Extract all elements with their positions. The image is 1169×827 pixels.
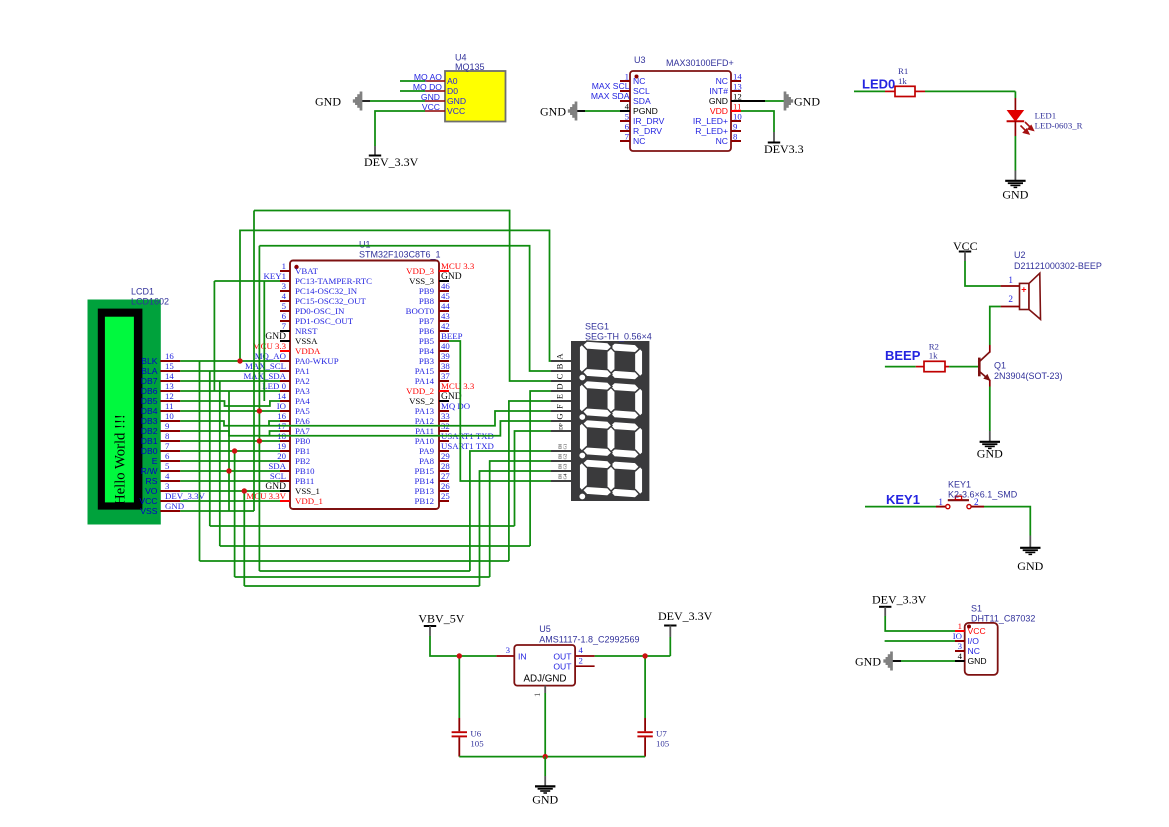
svg-text:KEY1: KEY1 xyxy=(264,271,286,281)
svg-text:E: E xyxy=(555,394,565,399)
svg-text:PB14: PB14 xyxy=(414,476,434,486)
LCD1 screen xyxy=(105,317,134,503)
svg-text:PA14: PA14 xyxy=(415,376,435,386)
svg-text:DB7: DB7 xyxy=(141,376,158,386)
wire SEG E drop xyxy=(509,401,551,561)
wire PA7 tail xyxy=(270,431,281,436)
svg-text:MCU 3.3V: MCU 3.3V xyxy=(246,491,286,501)
svg-text:4: 4 xyxy=(958,651,963,661)
svg-text:U1: U1 xyxy=(359,240,371,250)
svg-text:9: 9 xyxy=(165,421,170,431)
svg-text:GND: GND xyxy=(855,655,881,669)
svg-text:SCL: SCL xyxy=(633,86,650,96)
U5 pin numbers xyxy=(506,645,584,697)
U1 right pin names xyxy=(406,266,435,506)
svg-text:IR_LED+: IR_LED+ xyxy=(693,116,728,126)
svg-text:PB0: PB0 xyxy=(295,436,311,446)
svg-text:G2: G2 xyxy=(563,453,568,459)
svg-text:40: 40 xyxy=(441,341,450,351)
svg-text:PB12: PB12 xyxy=(414,496,434,506)
svg-text:3: 3 xyxy=(165,481,170,491)
net label MAX SCL xyxy=(592,81,630,91)
wire MQ AO xyxy=(400,80,425,82)
svg-text:IR_DRV: IR_DRV xyxy=(633,116,665,126)
svg-text:105: 105 xyxy=(656,739,670,749)
svg-text:4: 4 xyxy=(625,102,630,112)
junction (234.6,451) xyxy=(232,448,237,453)
svg-text:10: 10 xyxy=(165,411,174,421)
svg-text:46: 46 xyxy=(441,281,450,291)
svg-text:3: 3 xyxy=(506,645,511,655)
svg-text:45: 45 xyxy=(441,291,450,301)
resistor R1 xyxy=(895,86,915,96)
diode LED1 xyxy=(1007,111,1025,122)
svg-text:PGND: PGND xyxy=(633,106,658,116)
U3 left pin names xyxy=(633,76,665,146)
junction (259.4,411) xyxy=(257,408,262,413)
ground flag (U4 GND) xyxy=(315,92,361,111)
capacitor U7 xyxy=(637,732,652,736)
wire row DB2 to SEG G xyxy=(180,421,551,436)
R1 value 1k xyxy=(898,76,907,86)
svg-text:1: 1 xyxy=(625,72,629,82)
svg-text:PC14-OSC32_IN: PC14-OSC32_IN xyxy=(295,286,358,296)
LCD1 pin names xyxy=(139,356,158,516)
wire LED0 to R1 xyxy=(854,90,895,92)
svg-text:U2: U2 xyxy=(1014,250,1026,260)
svg-text:E: E xyxy=(152,456,158,466)
junction (240,361) xyxy=(237,358,242,363)
wire row DB4/IO xyxy=(180,410,280,412)
svg-text:PD0-OSC_IN: PD0-OSC_IN xyxy=(295,306,345,316)
LCD1 reference designator xyxy=(131,287,154,297)
wire SEG DP drop xyxy=(515,431,552,526)
svg-text:8: 8 xyxy=(733,132,738,142)
svg-text:PA5: PA5 xyxy=(295,406,310,416)
svg-text:13: 13 xyxy=(733,82,742,92)
junction U5 output xyxy=(642,653,647,658)
svg-text:G3: G3 xyxy=(563,463,568,469)
power symbol DEV_3.3V (U4) xyxy=(364,146,419,169)
svg-text:SDA: SDA xyxy=(268,461,286,471)
svg-text:8: 8 xyxy=(165,431,170,441)
svg-text:GND: GND xyxy=(1002,188,1028,202)
svg-text:PA7: PA7 xyxy=(295,426,310,436)
U3 left pin numbers xyxy=(625,72,630,142)
svg-text:IO: IO xyxy=(277,401,286,411)
svg-text:PA2: PA2 xyxy=(295,376,310,386)
svg-text:BEEP: BEEP xyxy=(885,348,921,363)
LCD1 bezel xyxy=(98,309,143,510)
buzzer U2 body xyxy=(1020,273,1041,319)
svg-text:GND: GND xyxy=(709,96,728,106)
svg-text:R1: R1 xyxy=(898,66,908,76)
wire bottom bus y=526 xyxy=(210,525,515,527)
svg-text:R/W: R/W xyxy=(141,466,159,476)
wire vertical KEY1 drop xyxy=(213,281,215,391)
svg-text:SDA: SDA xyxy=(633,96,651,106)
svg-text:VCC: VCC xyxy=(447,106,465,116)
svg-text:DB1: DB1 xyxy=(141,436,158,446)
svg-text:33: 33 xyxy=(441,411,450,421)
svg-text:VCC: VCC xyxy=(139,496,157,506)
U5 pin names xyxy=(518,652,572,685)
svg-text:D21121000302-BEEP: D21121000302-BEEP xyxy=(1014,261,1102,271)
svg-text:PD1-OSC_OUT: PD1-OSC_OUT xyxy=(295,316,354,326)
regulator U5 AMS1117 body xyxy=(514,645,575,686)
U4 pin names xyxy=(447,76,466,116)
sensor U4 MQ135 body xyxy=(445,71,506,122)
svg-text:S1: S1 xyxy=(971,604,982,614)
svg-text:12: 12 xyxy=(733,92,742,102)
svg-text:14: 14 xyxy=(277,391,286,401)
wire vertical inner loop leg xyxy=(258,246,260,571)
svg-text:PB5: PB5 xyxy=(419,336,435,346)
svg-text:10: 10 xyxy=(733,112,742,122)
svg-text:C: C xyxy=(555,373,565,379)
svg-text:2: 2 xyxy=(1008,294,1013,304)
Q1 value 2N3904(SOT-23) xyxy=(994,371,1063,381)
svg-text:4: 4 xyxy=(282,291,287,301)
svg-text:NC: NC xyxy=(633,136,645,146)
ground (KEY1) xyxy=(1017,536,1043,574)
svg-text:D: D xyxy=(555,383,565,389)
svg-text:DHT11_C87032: DHT11_C87032 xyxy=(971,614,1035,624)
svg-text:GND: GND xyxy=(1017,559,1043,573)
svg-text:GND: GND xyxy=(315,95,341,109)
transistor Q1 2N3904 xyxy=(978,345,990,387)
U1 right pin stubs xyxy=(439,271,449,501)
wire row E/20 xyxy=(180,460,280,462)
svg-text:LED-0603_R: LED-0603_R xyxy=(1035,121,1083,131)
svg-text:DB0: DB0 xyxy=(141,446,158,456)
svg-text:PA1: PA1 xyxy=(295,366,310,376)
wire KEY1 to switch xyxy=(865,506,946,508)
svg-text:1: 1 xyxy=(1008,275,1013,285)
capacitor U7 wires xyxy=(644,656,646,757)
svg-text:MCU 3.3: MCU 3.3 xyxy=(253,341,287,351)
MCU U1 STM32F103C8T6 body xyxy=(290,261,439,510)
LED1 light arrows xyxy=(1021,122,1034,134)
wire U3 VDD to DEV3.3 xyxy=(741,111,774,132)
svg-text:PB2: PB2 xyxy=(295,456,310,466)
wire BEEP to R2 xyxy=(885,366,924,368)
wire vertical 19 to bus xyxy=(234,451,236,577)
svg-text:IO: IO xyxy=(953,631,962,641)
svg-text:GND: GND xyxy=(165,501,184,511)
svg-text:DB5: DB5 xyxy=(141,396,158,406)
wire row BLA/MAX_SCL xyxy=(180,370,280,372)
svg-text:1: 1 xyxy=(958,621,962,631)
U1 left net labels and pin numbers xyxy=(243,261,286,501)
U4 pin stubs xyxy=(425,81,445,111)
U1 pin1 dot xyxy=(294,265,298,269)
U5 ADJ pin and wire down xyxy=(544,686,546,757)
svg-text:PB11: PB11 xyxy=(295,476,314,486)
svg-text:6: 6 xyxy=(625,122,630,132)
svg-text:1: 1 xyxy=(532,693,542,697)
wire row DB1/18 xyxy=(180,440,280,442)
S1 pin numbers xyxy=(953,621,963,661)
net flag KEY1 xyxy=(886,492,920,507)
net label MAX SDA xyxy=(591,91,630,101)
net label GND (U4) xyxy=(421,92,440,102)
LED1 reference designator xyxy=(1035,111,1057,121)
wire U3 PGND to GND xyxy=(576,110,620,112)
S1 pin names xyxy=(968,626,987,666)
U5 reference designator xyxy=(539,624,551,634)
svg-text:VSS: VSS xyxy=(140,506,157,516)
ground flag (U3 PGND) xyxy=(540,102,576,121)
wire bottom bus y=571 xyxy=(259,570,470,572)
U6 reference designator xyxy=(470,729,481,739)
svg-text:VO: VO xyxy=(145,486,158,496)
svg-text:A: A xyxy=(555,353,565,360)
ground (U5) xyxy=(532,757,558,807)
svg-text:LED1: LED1 xyxy=(1035,111,1057,121)
svg-text:LED 0: LED 0 xyxy=(262,381,286,391)
power symbol DEV_3.3V (S1) xyxy=(872,593,927,617)
svg-text:DB6: DB6 xyxy=(141,386,158,396)
wire row DB6/LED 0 xyxy=(180,390,280,392)
svg-text:MQ135: MQ135 xyxy=(455,62,485,72)
svg-text:LCD1602: LCD1602 xyxy=(131,297,169,307)
svg-text:BOOT0: BOOT0 xyxy=(406,306,435,316)
wire SEG DIG1 drop xyxy=(470,451,551,571)
U2 reference designator xyxy=(1014,250,1026,260)
svg-text:42: 42 xyxy=(441,321,450,331)
svg-text:1k: 1k xyxy=(929,351,938,361)
svg-text:PA8: PA8 xyxy=(419,456,434,466)
KEY1 reference designator xyxy=(948,480,971,490)
svg-text:11: 11 xyxy=(165,401,173,411)
svg-text:GND: GND xyxy=(968,656,987,666)
wire U4 VCC to DEV_3.3V xyxy=(375,111,425,146)
svg-text:7: 7 xyxy=(282,321,287,331)
svg-text:GND: GND xyxy=(447,96,466,106)
wire bottom bus y=586 xyxy=(244,585,479,587)
svg-text:SEG1: SEG1 xyxy=(585,322,609,332)
svg-text:MCU 3.3: MCU 3.3 xyxy=(441,261,475,271)
svg-text:PB8: PB8 xyxy=(419,296,435,306)
U4 reference designator xyxy=(455,53,467,63)
wire vertical DB7 to bus xyxy=(219,381,221,546)
svg-text:3: 3 xyxy=(958,641,963,651)
LCD1 pin stubs xyxy=(160,361,180,511)
switch KEY1 K2-3.6x6.1_SMD xyxy=(946,496,971,509)
svg-text:MAX SCL: MAX SCL xyxy=(592,81,630,91)
wire U2 pin2 to Q1 collector xyxy=(990,307,1020,346)
wire bottom bus y=577 xyxy=(235,576,490,578)
svg-text:PB13: PB13 xyxy=(414,486,434,496)
KEY1 value K2-3.6x6.1_SMD xyxy=(948,490,1018,500)
svg-text:39: 39 xyxy=(441,351,450,361)
sensor S1 DHT11 body xyxy=(965,623,998,675)
svg-text:26: 26 xyxy=(441,481,450,491)
LED1 cathode pin and wire to GND xyxy=(1014,121,1016,171)
power symbol VBV_5V xyxy=(418,612,464,637)
svg-text:MAX30100EFD+: MAX30100EFD+ xyxy=(666,58,734,68)
svg-text:37: 37 xyxy=(441,371,450,381)
svg-text:1: 1 xyxy=(282,261,286,271)
svg-text:VDD_3: VDD_3 xyxy=(406,266,434,276)
svg-text:+: + xyxy=(1021,285,1026,295)
svg-text:5: 5 xyxy=(282,301,287,311)
svg-text:NRST: NRST xyxy=(295,326,318,336)
svg-text:1: 1 xyxy=(938,497,943,507)
svg-text:RS: RS xyxy=(146,476,158,486)
svg-text:DB4: DB4 xyxy=(141,406,158,416)
svg-text:U6: U6 xyxy=(470,729,481,739)
svg-text:U3: U3 xyxy=(634,55,646,65)
svg-text:LCD1: LCD1 xyxy=(131,287,154,297)
wire vertical GND bus drop xyxy=(243,491,245,586)
svg-text:9: 9 xyxy=(733,122,738,132)
S1 value DHT11_C87032 xyxy=(971,614,1035,624)
svg-text:VDD_1: VDD_1 xyxy=(295,496,323,506)
svg-text:VDD_2: VDD_2 xyxy=(406,386,434,396)
wire bottom rail xyxy=(459,756,645,758)
svg-text:DB2: DB2 xyxy=(141,426,158,436)
svg-text:PA3: PA3 xyxy=(295,386,310,396)
wire row BLK/MQ_AO xyxy=(180,360,280,362)
wire IO stub to S1 xyxy=(885,640,955,642)
junction (244.3,491) xyxy=(242,488,247,493)
svg-text:DEV3.3: DEV3.3 xyxy=(764,142,804,156)
U1 left pin stubs xyxy=(280,271,290,501)
LED1 value LED-0603_R xyxy=(1035,121,1083,131)
svg-text:14: 14 xyxy=(165,371,174,381)
svg-text:13: 13 xyxy=(165,381,174,391)
U5 OUT pin2 stub xyxy=(575,665,595,667)
Q1 reference designator xyxy=(994,361,1006,371)
wire MQ DO xyxy=(400,90,425,92)
svg-text:PA9: PA9 xyxy=(419,446,434,456)
svg-text:PA4: PA4 xyxy=(295,396,310,406)
U5 value AMS1117-1.8_C2992569 xyxy=(539,635,639,645)
svg-text:44: 44 xyxy=(441,301,450,311)
display LCD1 LCD1602 body xyxy=(88,300,160,524)
svg-text:U5: U5 xyxy=(539,624,551,634)
junction (229,471) xyxy=(226,468,231,473)
net flag BEEP xyxy=(885,348,921,363)
resistor R2 xyxy=(924,361,945,371)
wire R1 to LED1 xyxy=(915,91,1015,98)
svg-text:PC13-TAMPER-RTC: PC13-TAMPER-RTC xyxy=(295,276,372,286)
net label VCC (U4) xyxy=(422,102,440,112)
svg-text:Q1: Q1 xyxy=(994,361,1006,371)
wire vertical over-top C leg xyxy=(253,211,255,512)
svg-text:14: 14 xyxy=(733,72,742,82)
junction bottom rail xyxy=(543,754,548,759)
wire DEV_3.3V down to OUT xyxy=(669,637,671,656)
SEG1 pin stubs xyxy=(551,361,571,481)
svg-text:VSS_2: VSS_2 xyxy=(409,396,434,406)
R1 reference designator xyxy=(898,66,908,76)
wire vertical BLA to bus xyxy=(209,371,211,526)
LCD1 Hello World text xyxy=(113,414,129,505)
svg-text:GND: GND xyxy=(540,105,566,119)
wire PB5 to SEG G4 xyxy=(449,341,551,481)
svg-text:MAX_SCL: MAX_SCL xyxy=(245,361,286,371)
LCD1 pin numbers and power labels xyxy=(165,351,205,511)
wire R2 to Q1 base xyxy=(945,366,978,368)
junction (259.4,441) xyxy=(257,438,262,443)
U1 left pin names xyxy=(295,266,372,506)
SEG1 digits xyxy=(579,340,643,498)
svg-text:38: 38 xyxy=(441,361,450,371)
svg-text:DEV_3.3V: DEV_3.3V xyxy=(658,609,713,623)
svg-text:15: 15 xyxy=(165,361,174,371)
svg-text:PB1: PB1 xyxy=(295,446,310,456)
wire SEG DIG3 drop xyxy=(480,471,552,586)
svg-text:PA6: PA6 xyxy=(295,416,310,426)
wire row DB7/MAX_SDA xyxy=(180,380,280,382)
wire bottom bus y=561 xyxy=(200,560,509,562)
svg-text:3: 3 xyxy=(282,281,287,291)
svg-text:OUT: OUT xyxy=(553,662,572,672)
svg-text:PB3: PB3 xyxy=(419,356,435,366)
svg-text:VBAT: VBAT xyxy=(295,266,319,276)
svg-text:VSSA: VSSA xyxy=(295,336,318,346)
svg-text:DEV_3.3V: DEV_3.3V xyxy=(364,155,419,169)
svg-text:NC: NC xyxy=(716,76,728,86)
svg-text:B: B xyxy=(555,363,565,369)
U7 reference designator xyxy=(656,729,667,739)
svg-text:5: 5 xyxy=(625,112,630,122)
svg-text:SCL: SCL xyxy=(270,471,286,481)
svg-text:R_DRV: R_DRV xyxy=(633,126,662,136)
power symbol VCC xyxy=(953,239,978,261)
wire SEG D drop xyxy=(530,391,551,546)
svg-text:PA0-WKUP: PA0-WKUP xyxy=(295,356,339,366)
svg-text:1k: 1k xyxy=(898,76,907,86)
svg-text:ADJ/GND: ADJ/GND xyxy=(524,674,567,685)
capacitor U6 wires xyxy=(458,656,460,757)
ground (Q1) xyxy=(977,431,1003,461)
R2 reference designator xyxy=(929,342,939,352)
svg-text:F: F xyxy=(555,404,565,409)
svg-text:VDD: VDD xyxy=(710,106,728,116)
svg-text:7: 7 xyxy=(625,132,630,142)
svg-text:VSS_3: VSS_3 xyxy=(409,276,435,286)
svg-text:LED0: LED0 xyxy=(862,77,895,92)
wire GND to S1 xyxy=(892,660,956,662)
svg-text:G1: G1 xyxy=(563,443,568,449)
wire row VCC/VDD xyxy=(180,500,280,502)
svg-text:6: 6 xyxy=(165,451,170,461)
svg-text:DB3: DB3 xyxy=(141,416,158,426)
wire VBV_5V to U5 IN xyxy=(430,636,514,656)
svg-text:INT#: INT# xyxy=(709,86,728,96)
svg-text:U4: U4 xyxy=(455,53,467,63)
U4 value MQ135 xyxy=(455,62,485,72)
ground (LED1) xyxy=(1002,171,1028,202)
power symbol DEV3.3 xyxy=(764,132,804,156)
svg-text:NC: NC xyxy=(633,76,645,86)
svg-text:USART1 TXD: USART1 TXD xyxy=(441,441,494,451)
svg-text:GND: GND xyxy=(977,447,1003,461)
svg-text:PB9: PB9 xyxy=(419,286,435,296)
svg-text:R_LED+: R_LED+ xyxy=(695,126,728,136)
svg-text:A0: A0 xyxy=(447,76,458,86)
svg-text:VSS_1: VSS_1 xyxy=(295,486,320,496)
svg-text:G: G xyxy=(555,413,565,419)
svg-text:VBV_5V: VBV_5V xyxy=(418,612,464,626)
LCD1 value LCD1602 xyxy=(131,297,169,307)
wire vertical KEY1 second drop xyxy=(263,281,265,401)
svg-text:11: 11 xyxy=(733,102,741,112)
